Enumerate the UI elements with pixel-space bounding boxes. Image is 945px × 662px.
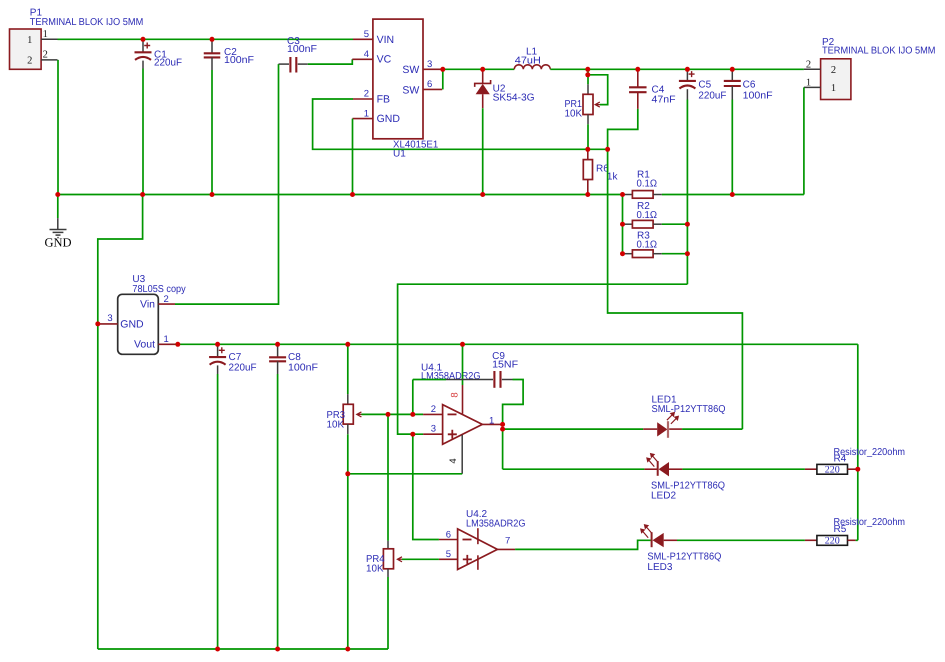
svg-text:C6: C6 [743,80,756,91]
LED LED1 [643,428,657,430]
wire FB node to LED1 return [608,149,743,429]
wire LED2 row [503,468,645,470]
junction bottom C7 [215,647,220,652]
wire R3 to sense vertical [662,253,688,255]
junction R3 right [685,251,690,256]
junction ground C6 [730,192,735,197]
U1 pin GND [353,118,373,120]
U4.2 pin 7 output [497,548,515,550]
svg-text:2: 2 [806,59,811,70]
svg-text:GND: GND [120,318,144,330]
wire SW6 to SW3 [442,69,444,89]
P2 pin 1 [804,86,821,88]
capacitor C1 [142,39,144,52]
svg-text:5: 5 [446,549,451,560]
svg-text:8: 8 [450,392,461,397]
junction FB C4 [605,147,610,152]
capacitor C8 [277,344,279,357]
wire PR4 wiper to U4.2 pin5 [402,558,439,560]
svg-text:0.1Ω: 0.1Ω [637,210,658,221]
wire VIN top rail [58,38,354,40]
svg-text:Vin: Vin [140,298,155,310]
wire C5 to sense node [686,100,688,285]
junction C2 top [210,37,215,42]
svg-text:LM358ADR2G: LM358ADR2G [466,519,526,530]
junction C6 top [730,67,735,72]
capacitor C2 [211,39,213,53]
svg-text:3: 3 [427,59,432,70]
diode U2 [482,69,484,83]
junction C1 top [141,37,146,42]
wire U4.2 output to LED3 [515,540,651,549]
svg-text:Resistor_220ohm: Resistor_220ohm [834,447,906,458]
svg-text:100nF: 100nF [288,362,318,373]
wire C4 to FB junction [608,109,638,149]
wire P1 pin2 to ground rail [57,60,59,195]
junction R2 left [620,222,625,227]
capacitor C7 [217,344,219,357]
svg-text:1: 1 [364,108,369,119]
wire ground rail jog to left vertical [98,195,143,650]
wire output to LED1 [503,428,644,430]
U4.1 pin 2 inverting input [423,413,443,415]
svg-text:SK54-3G: SK54-3G [493,93,535,104]
svg-text:0.1Ω: 0.1Ω [637,178,658,189]
svg-text:1: 1 [43,29,48,40]
resistor R2 [623,223,633,225]
resistor R4 [805,468,817,470]
junction U2 cathode [480,67,485,72]
svg-text:TERMINAL BLOK IJO 5MM: TERMINAL BLOK IJO 5MM [30,17,144,28]
wire PR3 bottom to bottom rail [347,434,349,649]
svg-text:2: 2 [431,404,436,415]
svg-text:SW: SW [402,64,419,76]
resistor R5 [805,539,817,541]
U1 pin VIN [353,38,373,40]
junction U4.1 pin8 supply [460,342,465,347]
U4.1 pin 1 output [482,423,501,425]
svg-text:FB: FB [377,93,390,105]
svg-text:TERMINAL BLOK IJO 5MM: TERMINAL BLOK IJO 5MM [822,46,936,57]
wire output down to LED2 row [502,429,504,469]
svg-text:1: 1 [831,83,836,94]
svg-text:4: 4 [448,458,459,463]
U1 pin SW 6 [423,88,442,90]
junction PR3 ground return [345,471,350,476]
junction FB R6 [585,147,590,152]
P2 pin 2 [804,68,821,70]
junction PR3 top [345,342,350,347]
svg-text:47nF: 47nF [652,95,676,106]
junction R3 left [620,251,625,256]
op-amp U4.1 [443,405,483,445]
PR1 wiper loop wire [588,75,608,105]
wire R2 to sense vertical [662,223,688,225]
op-amp U4.2 [458,529,498,570]
junction U3 Vout [175,342,180,347]
junction ground R1 [620,192,625,197]
junction ground U2 [480,192,485,197]
svg-text:220: 220 [825,536,840,547]
junction R4 right [855,467,860,472]
svg-text:4: 4 [364,49,369,60]
resistor R1 [623,194,632,196]
junction ground P1 [55,192,60,197]
junction SW node [440,67,445,72]
U3 pin GND [97,323,117,325]
svg-text:3: 3 [431,424,436,435]
svg-text:GND: GND [44,235,71,249]
potentiometer PR4 [387,541,389,549]
wire LED3 to R5 [677,539,805,541]
svg-text:1: 1 [489,416,494,427]
svg-text:VIN: VIN [377,34,395,46]
wire PR1 to FB line [587,124,589,149]
wire bottom ground rail [98,648,388,650]
svg-text:2: 2 [831,65,836,76]
wire PR3 wiper to op-amp pin2 [361,413,423,415]
wire FB net [313,99,608,149]
U4.2 pin 5 non-inverting input [439,558,458,560]
wire U1 GND to ground rail [352,119,354,195]
inductor L1 [514,65,550,70]
wire PR4 bottom to bottom rail [387,577,389,649]
junction C7 top [215,342,220,347]
wire C2 to ground rail [211,70,213,195]
resistor R3 [623,253,633,255]
svg-text:3: 3 [107,313,112,324]
terminal block P2 [821,59,851,100]
ground symbol [57,195,59,219]
svg-text:220uF: 220uF [154,58,182,69]
U4.1 pin 4 negative supply [461,435,463,474]
svg-text:GND: GND [377,113,401,125]
resistor R6 [587,149,589,159]
svg-text:7: 7 [505,536,510,547]
U3 pin Vin [158,303,175,305]
svg-text:5: 5 [364,29,369,40]
wire shunt left vertical [622,195,624,254]
svg-text:Vout: Vout [134,339,155,351]
terminal block P1 [10,29,42,69]
svg-text:47uH: 47uH [515,56,541,67]
junction pin2 feedback [410,412,415,417]
svg-text:U1: U1 [393,149,406,160]
wire U2 anode to ground rail [482,108,484,194]
svg-text:78L05S copy: 78L05S copy [132,284,185,295]
svg-text:2: 2 [164,294,169,305]
wire U4.1 pin8 to 5V rail [462,344,464,385]
wire C1 to ground rail [142,69,144,195]
junction output feedback [500,422,505,427]
svg-text:0.1Ω: 0.1Ω [637,239,658,250]
wire SW node to inductor [443,68,515,70]
wire C7 to bottom rail [217,374,219,649]
wire C6 to ground rail [731,100,733,195]
U4.1 pin 3 non-inverting input [423,433,443,435]
junction PR1 top [585,67,590,72]
svg-text:C5: C5 [698,80,711,91]
U1 pin VC [352,58,373,60]
capacitor C6 [731,69,733,81]
svg-text:LED2: LED2 [651,491,676,502]
junction output LED row [500,427,505,432]
svg-text:2: 2 [27,56,32,67]
svg-text:2: 2 [364,89,369,100]
svg-text:6: 6 [446,529,451,540]
wire R5 to right vertical [856,539,858,541]
wire right vertical to R4 R5 [857,344,859,540]
svg-text:1: 1 [164,334,169,345]
wire R4 to right vertical [856,468,858,470]
junction U3 GND [95,321,100,326]
wire C3 to VC pin [308,59,353,64]
U1 pin FB [353,98,373,100]
wire PR4 top connection [387,414,389,540]
capacitor C4 [637,69,639,87]
wire C3 to U3 Vin [175,64,279,304]
wire inductor to output rail [550,68,804,70]
svg-text:220: 220 [825,464,840,475]
svg-text:100nF: 100nF [224,55,254,66]
U3 pin Vout [158,343,175,345]
junction C5 top [685,67,690,72]
svg-text:10K: 10K [366,564,384,575]
wire U4.1 pin4 ground return [348,473,462,475]
wire shunt rail right portion [662,194,804,196]
svg-text:1k: 1k [607,171,619,182]
op-amp supply ic U1 body [373,19,423,139]
svg-text:VC: VC [377,53,392,65]
voltage regulator U3 body [118,294,159,354]
P1 pin 1 [41,38,57,40]
junction ground C2 [210,192,215,197]
svg-text:100nF: 100nF [287,44,317,55]
junction bottom PR3 [345,647,350,652]
svg-text:SML-P12YTT86Q: SML-P12YTT86Q [647,552,721,563]
ground rail [58,194,623,196]
capacitor C3 [289,57,291,73]
svg-text:1: 1 [27,35,32,46]
wire 5V output rail [175,343,858,345]
wire feedback through C9 [412,380,414,415]
P1 pin 2 [41,59,57,61]
potentiometer PR1 [587,69,589,84]
junction pin3 sense [410,432,415,437]
svg-text:6: 6 [427,79,432,90]
svg-text:10K: 10K [565,109,583,120]
wire LED2 to R4 [682,468,805,470]
wire P2 pin1 down to shunt rail [803,87,805,194]
U4.2 pin 6 inverting input [439,539,458,541]
capacitor C5 [686,69,688,81]
junction ground C1 [140,192,145,197]
wire LED1 to return vertical [682,428,742,430]
junction PR4 top [386,412,391,417]
svg-text:220uF: 220uF [229,362,257,373]
svg-text:SML-P12YTT86Q: SML-P12YTT86Q [652,404,726,415]
junction PR1 wiper [585,72,590,77]
potentiometer PR3 [347,344,349,394]
svg-text:1: 1 [806,78,811,89]
U1 pin SW 3 [423,68,442,70]
svg-text:15NF: 15NF [492,359,518,370]
junction ground R6 [585,192,590,197]
junction C4 top [635,67,640,72]
junction C8 top [275,342,280,347]
svg-text:10K: 10K [327,420,345,431]
capacitor C9 [493,371,495,388]
svg-text:LED3: LED3 [647,562,672,573]
wire sense line to op-amp [398,284,688,434]
svg-text:100nF: 100nF [743,90,773,101]
junction R2 right [685,222,690,227]
U4.1 pin 8 positive supply [462,385,464,414]
wire sense node down to U4.2 pin6 [413,434,439,539]
junction ground U1 [350,192,355,197]
svg-text:220uF: 220uF [698,90,726,101]
svg-text:Resistor_220ohm: Resistor_220ohm [834,517,906,528]
wire pin3 junction to pin stub [398,433,424,435]
LED LED3 [651,532,653,547]
LED LED2 [644,468,657,470]
svg-text:2: 2 [43,50,48,61]
svg-text:SW: SW [402,84,419,96]
junction bottom C8 [275,647,280,652]
wire C8 to bottom rail [277,374,279,649]
